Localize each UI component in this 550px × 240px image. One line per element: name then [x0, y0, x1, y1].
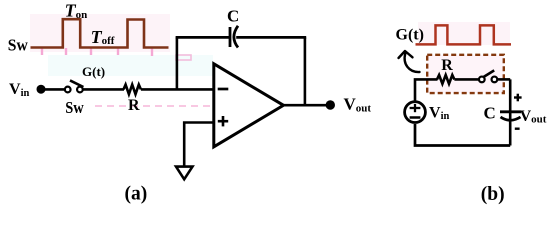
svg-text:(a): (a): [125, 183, 148, 204]
node output dot: [326, 100, 335, 109]
arrow curved (b): [399, 51, 420, 72]
svg-text:Vout: Vout: [520, 108, 547, 126]
svg-text:G(t): G(t): [82, 64, 105, 79]
svg-text:(b): (b): [481, 184, 505, 205]
waveform Sw control signal: [31, 19, 169, 47]
svg-text:Vin: Vin: [9, 81, 29, 99]
artifact cyan band: [48, 55, 213, 76]
artifact pink ticks: [42, 48, 152, 56]
waveform halo (a): [30, 14, 170, 52]
resistor R (a): [124, 85, 141, 95]
wire top-left corner (b): [415, 79, 438, 101]
capacitor C (b): [500, 112, 521, 120]
wire feedback top right: [236, 36, 306, 39]
wire non-inverting input: [184, 123, 214, 167]
wire resistor to switch (b): [454, 78, 479, 81]
wire switch to capacitor (b): [497, 78, 510, 81]
label minus (b): [515, 127, 520, 129]
capacitor C (a): [230, 26, 238, 48]
switch Sw (a): [65, 80, 84, 92]
switch (b): [479, 70, 497, 82]
wire right vertical through capacitor (b): [509, 79, 512, 145]
waveform halo (b): [418, 22, 510, 45]
svg-text:R: R: [441, 57, 453, 74]
op-amp U1: [214, 64, 284, 147]
svg-text:Sw: Sw: [65, 98, 84, 117]
op-amp minus sign: [218, 88, 229, 91]
wire feedback right vertical: [304, 37, 307, 105]
svg-text:G(t): G(t): [396, 27, 424, 44]
wire switch to resistor: [83, 88, 124, 91]
artifact pink dashed line: [95, 105, 250, 107]
wire input dot to switch: [41, 88, 65, 91]
wire feedback top left: [176, 36, 229, 39]
node V_in input dot: [37, 85, 46, 94]
wire feedback left vertical: [176, 37, 179, 89]
dashed box R-switch (b): [427, 55, 504, 93]
resistor R (b): [437, 75, 454, 84]
op-amp plus sign: [218, 116, 228, 126]
svg-text:C: C: [227, 7, 239, 26]
svg-text:Sw: Sw: [8, 36, 29, 55]
svg-text:Ton: Ton: [65, 1, 88, 21]
wire resistor to op-amp: [141, 88, 214, 91]
waveform G(t) gate signal: [416, 25, 512, 44]
wire bottom (b): [415, 124, 510, 146]
voltage source V_in (b): [405, 102, 426, 123]
artifact pink mark: [176, 55, 191, 60]
svg-text:C: C: [484, 103, 496, 122]
wire op-amp output: [284, 104, 328, 107]
svg-text:R: R: [128, 97, 140, 114]
svg-text:Vout: Vout: [344, 95, 372, 115]
svg-text:Vin: Vin: [429, 105, 449, 122]
label plus (b): [514, 94, 522, 102]
ground: [176, 167, 193, 180]
